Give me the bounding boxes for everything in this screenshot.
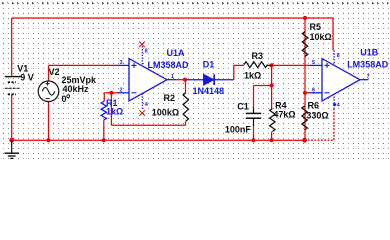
wire top rail: [12, 17, 333, 19]
wire R2 top lead: [185, 80, 187, 93]
wire C1 bottom lead: [253, 126, 255, 141]
svg-text:R6: R6: [308, 101, 320, 111]
wire R4 top lead: [271, 65, 273, 108]
wire R2 bottom lead: [185, 121, 187, 125]
wire R6 branch: [304, 93, 306, 140]
svg-text:100kΩ: 100kΩ: [152, 107, 179, 117]
svg-text:1kΩ: 1kΩ: [106, 107, 123, 117]
node R3 junction: [270, 63, 274, 67]
resistor R4: [270, 109, 275, 132]
svg-text:8: 8: [145, 49, 148, 55]
AC source V2: [38, 81, 59, 102]
node feedback junction: [109, 91, 113, 95]
wire U1A inverting input: [104, 92, 117, 94]
wire V2 bottom lead: [48, 102, 50, 140]
svg-text:R3: R3: [252, 51, 264, 61]
capacitor C1: [246, 107, 261, 126]
wire R1 top lead: [103, 93, 105, 101]
svg-text:R5: R5: [310, 22, 322, 32]
wire U1B V+ drop: [332, 17, 334, 50]
wire left rail: [11, 18, 13, 77]
node R5 top rail junction: [303, 16, 307, 20]
svg-text:1kΩ: 1kΩ: [244, 70, 261, 80]
wire C1 branch horizontal: [254, 85, 272, 87]
resistor R5: [302, 32, 307, 57]
wire U1B inverting input: [305, 92, 310, 94]
svg-text:C1: C1: [237, 101, 249, 111]
U1B pin 8 stub (dotted): [333, 51, 335, 66]
resistor R2: [183, 93, 188, 122]
svg-text:100nF: 100nF: [225, 125, 252, 135]
svg-text:1: 1: [171, 74, 174, 80]
ground: [5, 140, 20, 158]
resistor R6: [302, 106, 307, 130]
wire R4 bottom lead: [271, 132, 273, 141]
U1B pin 4 stub (dotted): [333, 94, 335, 109]
node ground rail at R4: [270, 138, 274, 142]
wire jog up to R3: [234, 65, 244, 79]
wire C1 top lead: [253, 86, 255, 108]
wire R1 bottom lead: [103, 120, 105, 140]
svg-text:47kΩ: 47kΩ: [273, 109, 295, 119]
node C1 branch junction: [270, 83, 274, 87]
svg-text:LM358AD: LM358AD: [148, 60, 190, 70]
wire R5 branch: [304, 18, 306, 93]
wire feedback vertical: [110, 93, 112, 126]
svg-text:10kΩ: 10kΩ: [310, 32, 332, 42]
node ground rail at R1: [102, 138, 106, 142]
svg-text:1N4148: 1N4148: [193, 86, 225, 96]
wire bottom ground rail: [12, 139, 305, 141]
U1A pin 8 unconnected: [139, 42, 145, 48]
wire output to D1 (selected): [187, 79, 234, 81]
node ground rail at V2: [46, 138, 50, 142]
svg-text:LM358AD: LM358AD: [347, 59, 389, 69]
svg-text:40kHz: 40kHz: [63, 84, 90, 94]
svg-text:3: 3: [120, 60, 123, 66]
op-amp U1A: [118, 46, 177, 109]
node output junction: [183, 78, 187, 82]
wire U1B pin4 to rail (selected, dashed): [305, 109, 334, 141]
resistor R3: [244, 62, 268, 68]
svg-text:8: 8: [337, 53, 340, 59]
wire U1A output: [176, 79, 187, 81]
node U1B inverting junction: [303, 91, 307, 95]
svg-text:9 V: 9 V: [20, 73, 34, 83]
svg-text:0: 0: [62, 94, 67, 104]
top edge cut-off text artifacts: [0, 0, 390, 5]
battery V1: [5, 77, 21, 95]
svg-text:6: 6: [312, 88, 315, 94]
svg-text:2: 2: [120, 88, 123, 94]
svg-text:7: 7: [367, 74, 370, 80]
diode D1: [204, 74, 215, 85]
svg-text:R2: R2: [164, 93, 176, 103]
op-amp U1B: [310, 59, 369, 101]
svg-text:U1B: U1B: [360, 47, 379, 57]
svg-text:330Ω: 330Ω: [306, 111, 328, 121]
node ground rail at C1: [251, 138, 255, 142]
node ground rail at V1: [9, 138, 14, 143]
wire feedback horizontal: [111, 124, 185, 126]
U1A pin 4 unconnected: [139, 110, 145, 116]
svg-text:5: 5: [312, 60, 315, 66]
node ground rail at R6: [302, 138, 307, 143]
resistor R1: [103, 101, 106, 102]
svg-text:V2: V2: [49, 67, 60, 77]
wire V2 to U1A noninverting input: [49, 64, 118, 66]
wire V1 to ground rail: [11, 95, 13, 141]
wire V2 top lead: [48, 65, 50, 80]
svg-text:U1A: U1A: [167, 48, 186, 58]
wire R3 to U1B noninverting input: [272, 64, 310, 66]
svg-text:D1: D1: [203, 59, 215, 69]
